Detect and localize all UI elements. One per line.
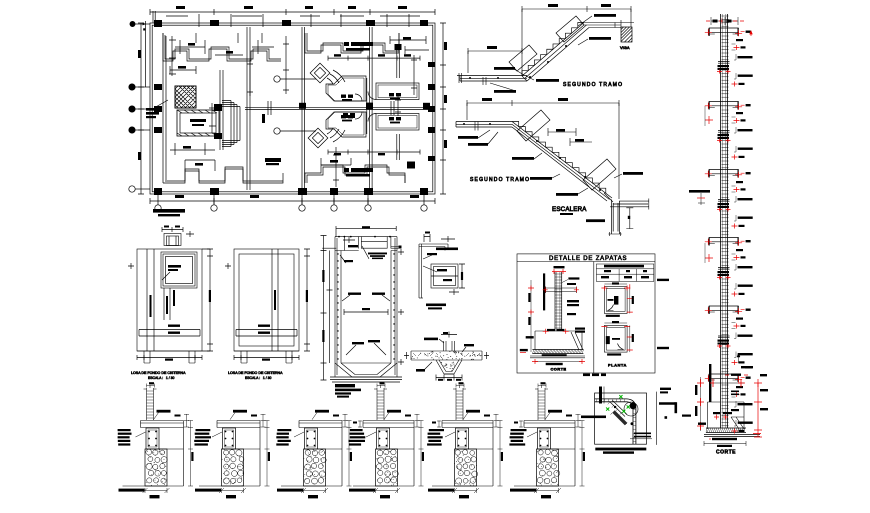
- lower door arcs: [355, 112, 376, 122]
- annotation cluster bay 5: [732, 318, 753, 339]
- band detail sump: [436, 360, 462, 374]
- footing detail 6 left notes: [509, 429, 526, 446]
- cisterna sump: [335, 363, 397, 377]
- excavation inner labels: [713, 409, 739, 420]
- base lower lines: [704, 434, 761, 437]
- losa1 access square: [161, 252, 197, 288]
- losa1 right dim: [202, 249, 213, 351]
- upper stair top dimension: [522, 4, 631, 76]
- left red mark bay4: [705, 243, 713, 263]
- corridor crossing squares: [299, 103, 430, 110]
- cisterna wall junction: [604, 193, 649, 236]
- svg-text:ESCALERA: ESCALERA: [552, 206, 587, 213]
- footing detail 3 right dim: [347, 421, 353, 487]
- band detail sump stipple: [441, 362, 455, 371]
- beam joint level 3: [705, 170, 751, 178]
- lower stair rebar dots: [463, 123, 601, 191]
- cisterna leader text: [146, 100, 168, 118]
- svg-text:CORTE: CORTE: [716, 450, 736, 456]
- footing detail 2 upper right dim: [251, 414, 266, 427]
- footing hatched band: [532, 350, 583, 354]
- right outside note 1: [657, 279, 669, 281]
- beam joint level 5: [705, 306, 751, 314]
- footing left dim line: [695, 377, 704, 431]
- upper stair left dimension: [468, 46, 522, 73]
- lower stair top landing slab: [456, 122, 512, 131]
- svg-text:CORTE: CORTE: [551, 367, 567, 372]
- svg-text:LOSA DE FONDO DE CISTERNA: LOSA DE FONDO DE CISTERNA: [131, 371, 186, 375]
- corte left note rotated: [543, 273, 545, 310]
- lower stair callout parallelogram 2: [583, 159, 616, 190]
- footing detail 6 upper right dim: [566, 414, 581, 427]
- losa1 bottom dim: [137, 355, 202, 361]
- svg-text:DETALLE DE ZAPATAS: DETALLE DE ZAPATAS: [549, 256, 627, 262]
- corridor double lines: [245, 101, 433, 123]
- cisterna mid dim: [344, 308, 388, 315]
- cisterna base lines: [330, 377, 402, 382]
- annotation extra bay 4: [732, 283, 753, 297]
- ladder top dim x544: [538, 382, 546, 387]
- lower left room label: [341, 115, 353, 121]
- footing detail 6 column section: [538, 428, 551, 449]
- footing detail 4 stones: [377, 449, 399, 483]
- grid bubble left 4: [129, 127, 150, 133]
- nivel terreno label: [575, 328, 585, 333]
- grid bubble right mid: [407, 162, 415, 169]
- plan area text NO CONSTRUIDO upper: [344, 42, 373, 51]
- cisterna wall rebar dots: [337, 253, 394, 359]
- wall stub lower: [397, 134, 400, 160]
- corner diagonal thick bar: [611, 412, 628, 425]
- footing detail 2 base line: [195, 486, 260, 492]
- planta2 phi label: [607, 353, 621, 355]
- cisterna right marks: [398, 249, 404, 365]
- corner rebar outer rect: [595, 393, 647, 444]
- losa2 inner top line: [239, 254, 294, 346]
- corte estribos label: [552, 266, 566, 274]
- column squares top wall: [154, 20, 428, 27]
- lower stair callout parallelogram 1: [517, 110, 550, 141]
- ladder top dim x462: [456, 382, 464, 387]
- footing detail 1 upper right dim: [175, 414, 190, 427]
- losa1 top stack dim: [162, 226, 194, 238]
- upper stair inclined slab: [522, 23, 589, 82]
- column squares left wall: [154, 84, 162, 133]
- lower stair inclined slab: [512, 122, 612, 202]
- plan top dimension line: [150, 9, 435, 15]
- footing detail 3 stone block: [304, 449, 326, 486]
- splice level 4: [717, 268, 731, 280]
- nfz label: [520, 349, 528, 353]
- footing detail 6 left dim: [514, 421, 523, 428]
- losa2 bottom dim: [234, 355, 299, 361]
- base dim line: [704, 441, 746, 447]
- band detail dims: [404, 352, 489, 381]
- corner detail box: [423, 264, 458, 288]
- footing detail 4 right body: [390, 428, 415, 487]
- losa2 bottom band: [236, 325, 297, 337]
- svg-text:ESCALA : 1 / 30: ESCALA : 1 / 30: [148, 376, 175, 380]
- annotation cluster bay 1: [732, 39, 753, 60]
- footing detail 1 column section: [146, 428, 159, 449]
- footing detail 3 stones: [304, 450, 326, 484]
- upper door arcs: [355, 92, 376, 102]
- losa1 outer rect: [137, 249, 202, 363]
- footing detail 6 base line: [510, 486, 575, 492]
- grid bubble row A left: [130, 11, 155, 87]
- footing detail 5 slab: [442, 421, 493, 428]
- corner detail wall: [419, 244, 448, 298]
- plan area text left mid: [265, 158, 281, 165]
- footing detail 6 right body: [551, 428, 576, 487]
- upper stair top landing: [584, 20, 634, 28]
- top-left room stepped outline: [163, 33, 281, 61]
- footing detail 4 upper right dim: [405, 414, 420, 427]
- wall stub upper: [395, 44, 402, 78]
- footing detail 5 stone block: [455, 449, 477, 486]
- footing detail 4 slab label: [384, 410, 401, 420]
- cisterna top dim: [322, 226, 396, 248]
- svg-text:PLANTA: PLANTA: [608, 363, 627, 368]
- annotation cluster bay 2: [732, 112, 753, 133]
- column squares right wall: [428, 62, 435, 161]
- stair well outline left: [220, 27, 250, 190]
- footing detail 6 bottom dim: [534, 488, 561, 498]
- footing detail 1 dowel ladder: [144, 385, 157, 420]
- right red dim column: [754, 379, 762, 437]
- planta square 2: [604, 325, 627, 352]
- center partition double vertical: [302, 27, 305, 191]
- corte column: [555, 272, 562, 331]
- viga hatched block: [621, 27, 632, 42]
- grid bubble mid-plan circle C: [274, 128, 316, 134]
- top red arrow: [750, 31, 752, 36]
- cisterna top corner notes: [340, 237, 358, 263]
- footing detail 2 stone block: [222, 449, 244, 486]
- solado under: [530, 354, 585, 358]
- losa1 strip B: [164, 288, 175, 320]
- footing detail 5 base line: [428, 486, 493, 492]
- footing detail 3 column section: [305, 428, 318, 449]
- upper right room: [376, 83, 419, 100]
- corner small black squares: [614, 406, 633, 425]
- upper left room label: [341, 95, 353, 101]
- footing detail 2 right body: [236, 428, 261, 487]
- corner title lines: [595, 448, 646, 454]
- footing detail 3 bottom dim: [301, 488, 328, 498]
- excavation outline: [708, 402, 745, 429]
- escalera scale label: [560, 213, 573, 215]
- column stirrups: [722, 16, 729, 426]
- upper stair steps: [522, 23, 584, 76]
- grid bubbles bottom: [155, 194, 427, 211]
- right outside note 2: [657, 347, 669, 349]
- ladder top dim x152.5: [147, 382, 155, 387]
- footing detail 1 slab label: [154, 410, 171, 420]
- funnel curves lower: [327, 128, 345, 142]
- annotation extra bay 6: [732, 420, 753, 434]
- upper units dim line: [328, 54, 420, 60]
- footing detail 6 right dim: [580, 421, 586, 487]
- viga soporte left label: [689, 190, 710, 205]
- footing detail 5 slab label: [463, 410, 480, 420]
- column squares bottom wall: [154, 188, 428, 195]
- footing base hatched slab: [706, 428, 746, 433]
- upper mid area label: [343, 113, 355, 118]
- cisterna outer walls: [335, 237, 397, 377]
- footing detail 4 stone block: [376, 449, 398, 486]
- top-left room inner dims: [175, 40, 274, 55]
- footing detail 1 stones: [146, 449, 167, 483]
- cisterna wall annotations: [342, 293, 390, 356]
- corte left dim: [526, 280, 534, 352]
- svg-text:SEGUNDO TRAMO: SEGUNDO TRAMO: [470, 177, 530, 183]
- upper stair lower landing slab: [457, 73, 527, 85]
- upper right room label: [389, 93, 401, 99]
- left room lower dims: [170, 143, 215, 155]
- footing detail 4 dowel ladder: [374, 385, 387, 420]
- solado label: [709, 438, 737, 440]
- splice level 3: [717, 200, 731, 212]
- footing detail 3 slab: [299, 421, 342, 428]
- planta square 1: [604, 287, 627, 314]
- footing detail 3 base line: [277, 486, 342, 492]
- footing detail 1 stone block: [145, 449, 167, 486]
- grid bubble mid-plan circle B: [274, 76, 316, 82]
- footing detail 4 right dim: [419, 421, 425, 487]
- foundation plan outer wall: [150, 23, 435, 194]
- corner detail labels top: [423, 248, 458, 260]
- plan title CIMENTACION: [153, 209, 185, 216]
- lower right room: [376, 114, 419, 131]
- cisterna title: [335, 384, 361, 398]
- upper stair annotation texts: [490, 14, 616, 93]
- lower stair mid dim: [548, 128, 592, 146]
- annotation extra bay 3: [732, 215, 753, 229]
- cisterna access shaft: [335, 237, 402, 251]
- grid bubble left 5: [129, 186, 150, 192]
- cisterna hatched column: [175, 86, 196, 108]
- lower units dim line: [328, 150, 420, 156]
- svg-text:VIGA: VIGA: [620, 45, 630, 50]
- footing detail 5 upper right dim: [484, 414, 499, 427]
- losa2 right dim: [304, 249, 310, 351]
- corner left label bar: [581, 416, 606, 419]
- footing detail 5 right dim: [498, 421, 504, 487]
- footing detail 1 base line: [119, 486, 184, 492]
- corner black dot: [630, 402, 637, 409]
- footing detail 1 bottom dim: [143, 488, 170, 498]
- plan left dimension line: [138, 23, 144, 194]
- footing detail 2 right dim: [265, 421, 271, 487]
- right vertical bundle: [367, 27, 372, 191]
- ladder top dim x383: [377, 382, 385, 387]
- lower stair steps: [512, 122, 606, 194]
- annotation extra bay 2: [732, 146, 753, 160]
- NFZ label: [698, 423, 706, 425]
- footing anchor arrow: [737, 353, 752, 368]
- footing detail 6 slab label: [545, 410, 562, 420]
- footing detail 5 stones: [455, 450, 478, 485]
- left red mark bay2: [705, 106, 713, 126]
- splice level 1: [717, 62, 731, 74]
- right dim texts: [745, 366, 768, 410]
- plan top secondary dim marks: [166, 14, 420, 27]
- band detail right top label: [462, 344, 474, 352]
- footing detail 2 stones: [223, 450, 244, 484]
- svg-text:LOSA DE FONDO DE CISTERNA: LOSA DE FONDO DE CISTERNA: [228, 371, 283, 375]
- footing detail 2 column section: [223, 428, 236, 449]
- right separator line: [656, 392, 658, 445]
- footing detail 6 dowel ladder: [535, 385, 548, 420]
- upper stair callout parallelogram 1: [509, 45, 537, 71]
- footing top red dims: [543, 329, 569, 334]
- annotation cluster bay 4: [732, 249, 753, 270]
- losa1 bottom band: [139, 325, 200, 337]
- corner diagonal tie thin: [608, 401, 627, 417]
- annotation extra bay 5: [732, 352, 753, 366]
- upper stair rebar dots: [469, 45, 567, 79]
- footing detail 1 slab: [141, 421, 184, 428]
- losa1 left mark: [128, 263, 134, 269]
- splice level 2: [717, 131, 731, 143]
- planta2 dims: [601, 321, 634, 352]
- plan right dimension line: [440, 23, 447, 194]
- footing detail 2 bottom dim: [219, 488, 246, 498]
- losa2 strip A: [272, 249, 278, 351]
- annotation cluster bay 3: [732, 181, 753, 202]
- footing detail 3 right body: [318, 428, 343, 487]
- beam joint level 2: [705, 102, 751, 110]
- column top dimension: [706, 17, 744, 25]
- grid bubble left 3: [129, 106, 150, 112]
- lower stair annotation texts: [458, 130, 643, 196]
- footing detail 5 dowel ladder: [453, 385, 466, 420]
- funnel curves upper: [327, 70, 345, 84]
- footing detail 4 slab: [363, 421, 414, 428]
- footing detail 4 base line: [349, 486, 414, 492]
- footing detail 6 stones: [537, 449, 560, 483]
- norm label: [562, 277, 579, 282]
- footing ground line: [710, 379, 745, 387]
- band detail column: [424, 332, 457, 352]
- lower right room label: [389, 117, 401, 123]
- upper mid zigzag wall: [305, 33, 399, 53]
- corner top column stub: [599, 387, 604, 404]
- footing detail 1 left notes: [118, 429, 132, 446]
- footing detail 5 left notes: [427, 429, 444, 446]
- corner detail right dim: [449, 264, 465, 295]
- footing detail 2 left notes: [194, 429, 211, 446]
- corner detail title: [426, 304, 446, 310]
- canto label: [567, 313, 576, 315]
- concreto labels: [567, 283, 579, 306]
- losa2 left mark: [225, 263, 231, 269]
- footing detail 1 right body: [159, 428, 184, 487]
- planta1 phi label: [606, 315, 620, 317]
- corner hook circle: [624, 402, 638, 416]
- corner detail top dims: [424, 232, 455, 243]
- cisterna tank plan: [177, 110, 219, 136]
- L-detail side note 1: [660, 388, 671, 394]
- footing 0.60 label: [725, 374, 748, 376]
- grid bubble left 2: [129, 84, 150, 90]
- bottom-left room stepped outline: [163, 160, 283, 183]
- losa1 strip A: [147, 249, 154, 351]
- plan misc inner dimension strings: [170, 36, 429, 74]
- annotation extra bay 1: [732, 73, 753, 87]
- beam joint level 1: [705, 28, 751, 36]
- cisterna left dim: [321, 236, 333, 381]
- footing detail 4 bottom dim: [373, 488, 400, 498]
- bent bar L detail: [659, 402, 676, 419]
- footing detail 5 left dim: [432, 421, 441, 428]
- footing detail 2 slab label: [230, 410, 247, 420]
- upper stair callout parallelogram 2: [556, 16, 584, 42]
- cisterna small label: [586, 219, 605, 222]
- plan top dimension text: [176, 6, 407, 9]
- cisterna black corner column: [214, 104, 222, 139]
- footing detail 4 left dim: [353, 421, 362, 428]
- footing detail 5 right body: [469, 428, 494, 487]
- losa2 outer rect: [234, 249, 299, 363]
- left wing inner wall vertical: [163, 33, 166, 183]
- band detail left label: [416, 362, 432, 372]
- footing bottom dim: [532, 359, 585, 365]
- footing detail 5 column section: [456, 428, 469, 449]
- diamond ramp lower: [308, 128, 328, 148]
- footing body: [535, 331, 583, 350]
- footing detail 6 slab: [524, 421, 575, 428]
- upper left room: [326, 76, 366, 101]
- plan area text NO CONSTRUIDO lower: [344, 168, 373, 177]
- splice level 5: [717, 336, 731, 348]
- lower left room: [326, 112, 366, 137]
- zapatas box frame: [517, 254, 655, 373]
- corte beam arms: [543, 287, 579, 294]
- corner green X marks: [606, 395, 630, 413]
- L-detail bottom note: [682, 415, 691, 417]
- corner band ticks: [596, 399, 636, 442]
- footing detail 5 bottom dim: [452, 488, 479, 498]
- footing detail 4 left notes: [349, 429, 366, 446]
- diamond ramp upper: [310, 63, 330, 83]
- corner detail dim text above: [583, 374, 606, 377]
- band detail slab: [411, 351, 482, 360]
- band detail stipple: [411, 351, 482, 360]
- beam joint level 4: [705, 238, 751, 246]
- footing left rotated note: [709, 364, 711, 402]
- cuadro table: [596, 264, 653, 281]
- plan bottom dimension line: [150, 195, 435, 204]
- footing detail 1 right dim: [188, 421, 194, 487]
- plan inner vertical dim left: [169, 36, 417, 187]
- column vertical bars: [721, 14, 728, 428]
- corner bent bar band: [595, 399, 636, 444]
- cisterna access label box: [338, 236, 391, 259]
- formwork braces: [731, 417, 744, 429]
- footing detail 6 stone block: [537, 449, 559, 486]
- svg-text:SEGUNDO TRAMO: SEGUNDO TRAMO: [563, 82, 623, 88]
- bottom-mid stepped outline: [305, 158, 405, 183]
- planta1 dims: [601, 282, 634, 313]
- footing floor sym: [731, 391, 739, 396]
- beam joint level 6: [705, 374, 751, 382]
- losa1 top stack: [164, 234, 181, 246]
- footing detail 4 column section: [377, 428, 390, 449]
- footing detail 3 left notes: [276, 429, 291, 446]
- corner bottom beam cut: [630, 433, 652, 439]
